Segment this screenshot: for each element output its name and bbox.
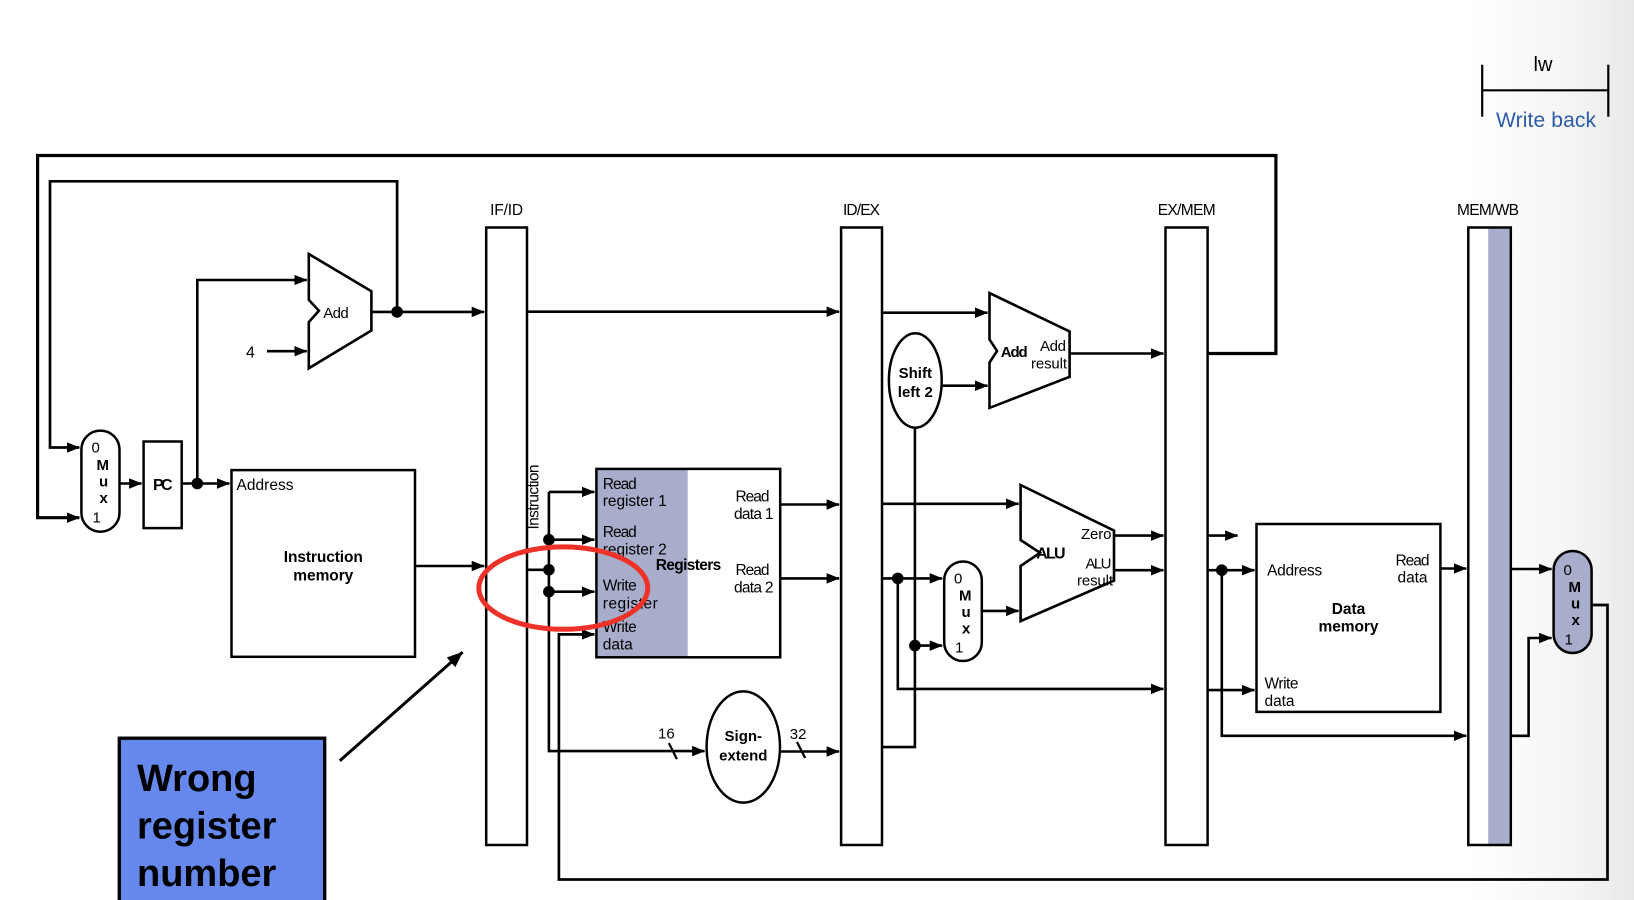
junction: instruction read register 2 node <box>543 534 555 546</box>
wire: to read register 2 <box>549 538 595 541</box>
svg-text:data 2: data 2 <box>734 580 774 597</box>
wire: read data to MEM/WB <box>1440 567 1466 570</box>
svg-text:Add: Add <box>1040 338 1066 355</box>
svg-text:Registers: Registers <box>656 557 722 574</box>
svg-text:Read: Read <box>736 562 770 579</box>
svg-text:Zero: Zero <box>1081 526 1112 543</box>
junction: read data 2 node <box>892 573 904 585</box>
svg-text:data 1: data 1 <box>734 506 774 523</box>
svg-text:1: 1 <box>1565 632 1573 649</box>
svg-text:u: u <box>962 604 971 621</box>
junction: immediate node <box>909 640 921 652</box>
wire: instruction stub from IF/ID <box>527 568 549 571</box>
svg-text:Read: Read <box>603 524 637 541</box>
wire: read data 2 from ID/EX to ALU mux 0 <box>882 577 942 580</box>
wire: mux to PC <box>120 482 142 485</box>
svg-text:Add: Add <box>323 305 349 322</box>
adder Add (branch target) <box>990 293 1070 408</box>
bus width slash 32 <box>797 742 805 758</box>
mux: write-back mux (highlighted) <box>1554 551 1592 653</box>
svg-text:register 1: register 1 <box>603 493 667 510</box>
wire: ALU result bypass down to MEM/WB <box>1222 570 1467 736</box>
svg-text:x: x <box>962 621 971 638</box>
junction: Add output node <box>391 306 403 318</box>
svg-text:M: M <box>959 588 972 605</box>
svg-text:Address: Address <box>237 477 294 494</box>
junction: instruction bus node <box>543 564 555 576</box>
pipeline register EX/MEM <box>1158 202 1216 845</box>
svg-text:data: data <box>603 637 633 654</box>
wire: immediate to ALU mux 1 <box>915 644 942 647</box>
wire: instruction memory to IF/ID <box>415 565 484 568</box>
wire: read data 1 to ID/EX <box>780 503 839 506</box>
svg-text:0: 0 <box>954 571 962 588</box>
svg-text:register: register <box>137 806 277 848</box>
svg-text:number: number <box>137 853 277 895</box>
adder Add (PC+4) <box>309 254 372 368</box>
svg-text:M: M <box>97 457 110 474</box>
svg-text:memory: memory <box>293 568 353 585</box>
pipeline register MEM/WB (write-back stage highlighted) <box>1457 202 1519 845</box>
wire: to read register 1 <box>549 491 595 494</box>
svg-text:4: 4 <box>246 345 255 362</box>
svg-text:lw: lw <box>1534 54 1553 76</box>
wire: PC+4 from IF/ID to ID/EX <box>527 310 839 313</box>
svg-text:Sign-: Sign- <box>725 728 763 745</box>
svg-text:u: u <box>99 473 108 490</box>
svg-text:result: result <box>1031 355 1068 372</box>
wire: store data from EX/MEM to data memory write data <box>1208 689 1255 692</box>
wire: ALU mux output to ALU <box>982 610 1019 613</box>
svg-text:left 2: left 2 <box>898 384 933 401</box>
svg-text:Instruction: Instruction <box>526 465 543 530</box>
svg-text:x: x <box>100 490 109 507</box>
svg-text:PC: PC <box>153 477 173 494</box>
svg-text:32: 32 <box>790 726 807 743</box>
svg-text:Read: Read <box>603 476 637 493</box>
svg-text:u: u <box>1571 596 1580 613</box>
svg-text:M: M <box>1569 579 1582 596</box>
wire: read data 2 to ID/EX <box>780 577 839 580</box>
svg-text:memory: memory <box>1319 619 1379 636</box>
callout box: Wrong register number <box>119 738 324 900</box>
wire: instruction vertical bus and sign-extend input <box>549 492 705 751</box>
wire: branch Add result to EX/MEM <box>1070 352 1164 355</box>
svg-text:IF/ID: IF/ID <box>490 202 523 219</box>
svg-text:result: result <box>1077 573 1114 590</box>
svg-text:Instruction: Instruction <box>284 549 363 566</box>
wire: to write register <box>549 590 595 593</box>
pipeline register IF/ID <box>486 202 527 845</box>
registers <box>596 469 780 657</box>
ALU <box>1021 485 1114 621</box>
wire: Add output to IF/ID <box>371 311 484 314</box>
svg-text:Write back: Write back <box>1496 109 1597 132</box>
svg-text:Data: Data <box>1332 601 1366 618</box>
svg-text:Read: Read <box>736 489 770 506</box>
junction: PC output node <box>192 478 204 490</box>
mux: PC source mux <box>81 431 119 532</box>
svg-text:Write: Write <box>1265 676 1299 693</box>
svg-text:Write: Write <box>603 578 637 595</box>
wire: PC+4 from ID/EX to branch Add <box>882 311 988 314</box>
svg-text:ALU: ALU <box>1036 545 1066 562</box>
svg-text:1: 1 <box>955 640 963 657</box>
wire: store data down and right to EX/MEM <box>898 578 1164 689</box>
wire: ALU result from MEM/WB to final mux input 1 <box>1511 638 1552 736</box>
junction: write register node <box>543 586 555 598</box>
svg-text:register: register <box>603 596 658 613</box>
svg-text:extend: extend <box>719 748 767 765</box>
svg-text:ID/EX: ID/EX <box>843 202 881 219</box>
svg-text:Read: Read <box>1396 553 1430 570</box>
pipeline register ID/EX <box>841 202 882 845</box>
wire: read data 1 from ID/EX to ALU <box>882 502 1019 505</box>
sign-extend unit <box>707 691 780 802</box>
wire: PC up to Add input <box>197 280 306 484</box>
svg-text:Address: Address <box>1267 563 1322 580</box>
wire: ALU result to data memory address <box>1208 569 1255 572</box>
data memory <box>1257 524 1441 712</box>
junction: ALU result node <box>1216 564 1228 576</box>
wire: zero flag dangling arrow <box>1208 534 1238 537</box>
svg-text:EX/MEM: EX/MEM <box>1158 202 1216 219</box>
svg-text:16: 16 <box>658 726 675 743</box>
svg-text:Shift: Shift <box>899 365 932 382</box>
wire: constant 4 to Add <box>267 350 307 353</box>
svg-text:x: x <box>1572 612 1581 629</box>
wire: ALU zero to EX/MEM <box>1114 534 1164 537</box>
wire: sign-extend output to ID/EX <box>780 750 839 753</box>
mux: ALU operand mux <box>944 562 982 662</box>
highlight: red ellipse around write register port <box>479 547 648 629</box>
register PC <box>144 442 182 529</box>
wire: PC to instruction memory address <box>182 482 230 485</box>
bus width slash 16 <box>669 743 677 759</box>
wire: PC+4 feedback to PC mux input 0 <box>50 181 397 447</box>
svg-text:ALU: ALU <box>1086 556 1112 573</box>
shift left 2 unit <box>889 333 942 427</box>
wire: write-back loop from final mux to register write data <box>559 605 1608 880</box>
svg-text:data: data <box>1398 570 1428 587</box>
svg-text:Wrong: Wrong <box>137 758 257 800</box>
wire: branch target feedback (EX/MEM Add result up over top to PC mux input 1) <box>38 156 1276 518</box>
svg-text:0: 0 <box>1564 562 1572 579</box>
svg-text:Add: Add <box>1001 344 1028 361</box>
svg-text:data: data <box>1265 693 1295 710</box>
svg-text:MEM/WB: MEM/WB <box>1457 202 1519 219</box>
svg-text:0: 0 <box>92 440 100 457</box>
wire: sign-extend value from ID/EX up to shift left 2 <box>882 428 915 747</box>
svg-text:1: 1 <box>93 510 101 527</box>
wire: read data from MEM/WB to final mux input 0 <box>1511 568 1552 571</box>
wire: shift left 2 output to branch Add <box>942 384 988 387</box>
instruction memory <box>232 470 416 657</box>
annotation arrow from callout to circled port <box>340 652 463 761</box>
stage bracket: lw write back <box>1482 65 1608 117</box>
wire: ALU result to EX/MEM <box>1114 569 1164 572</box>
